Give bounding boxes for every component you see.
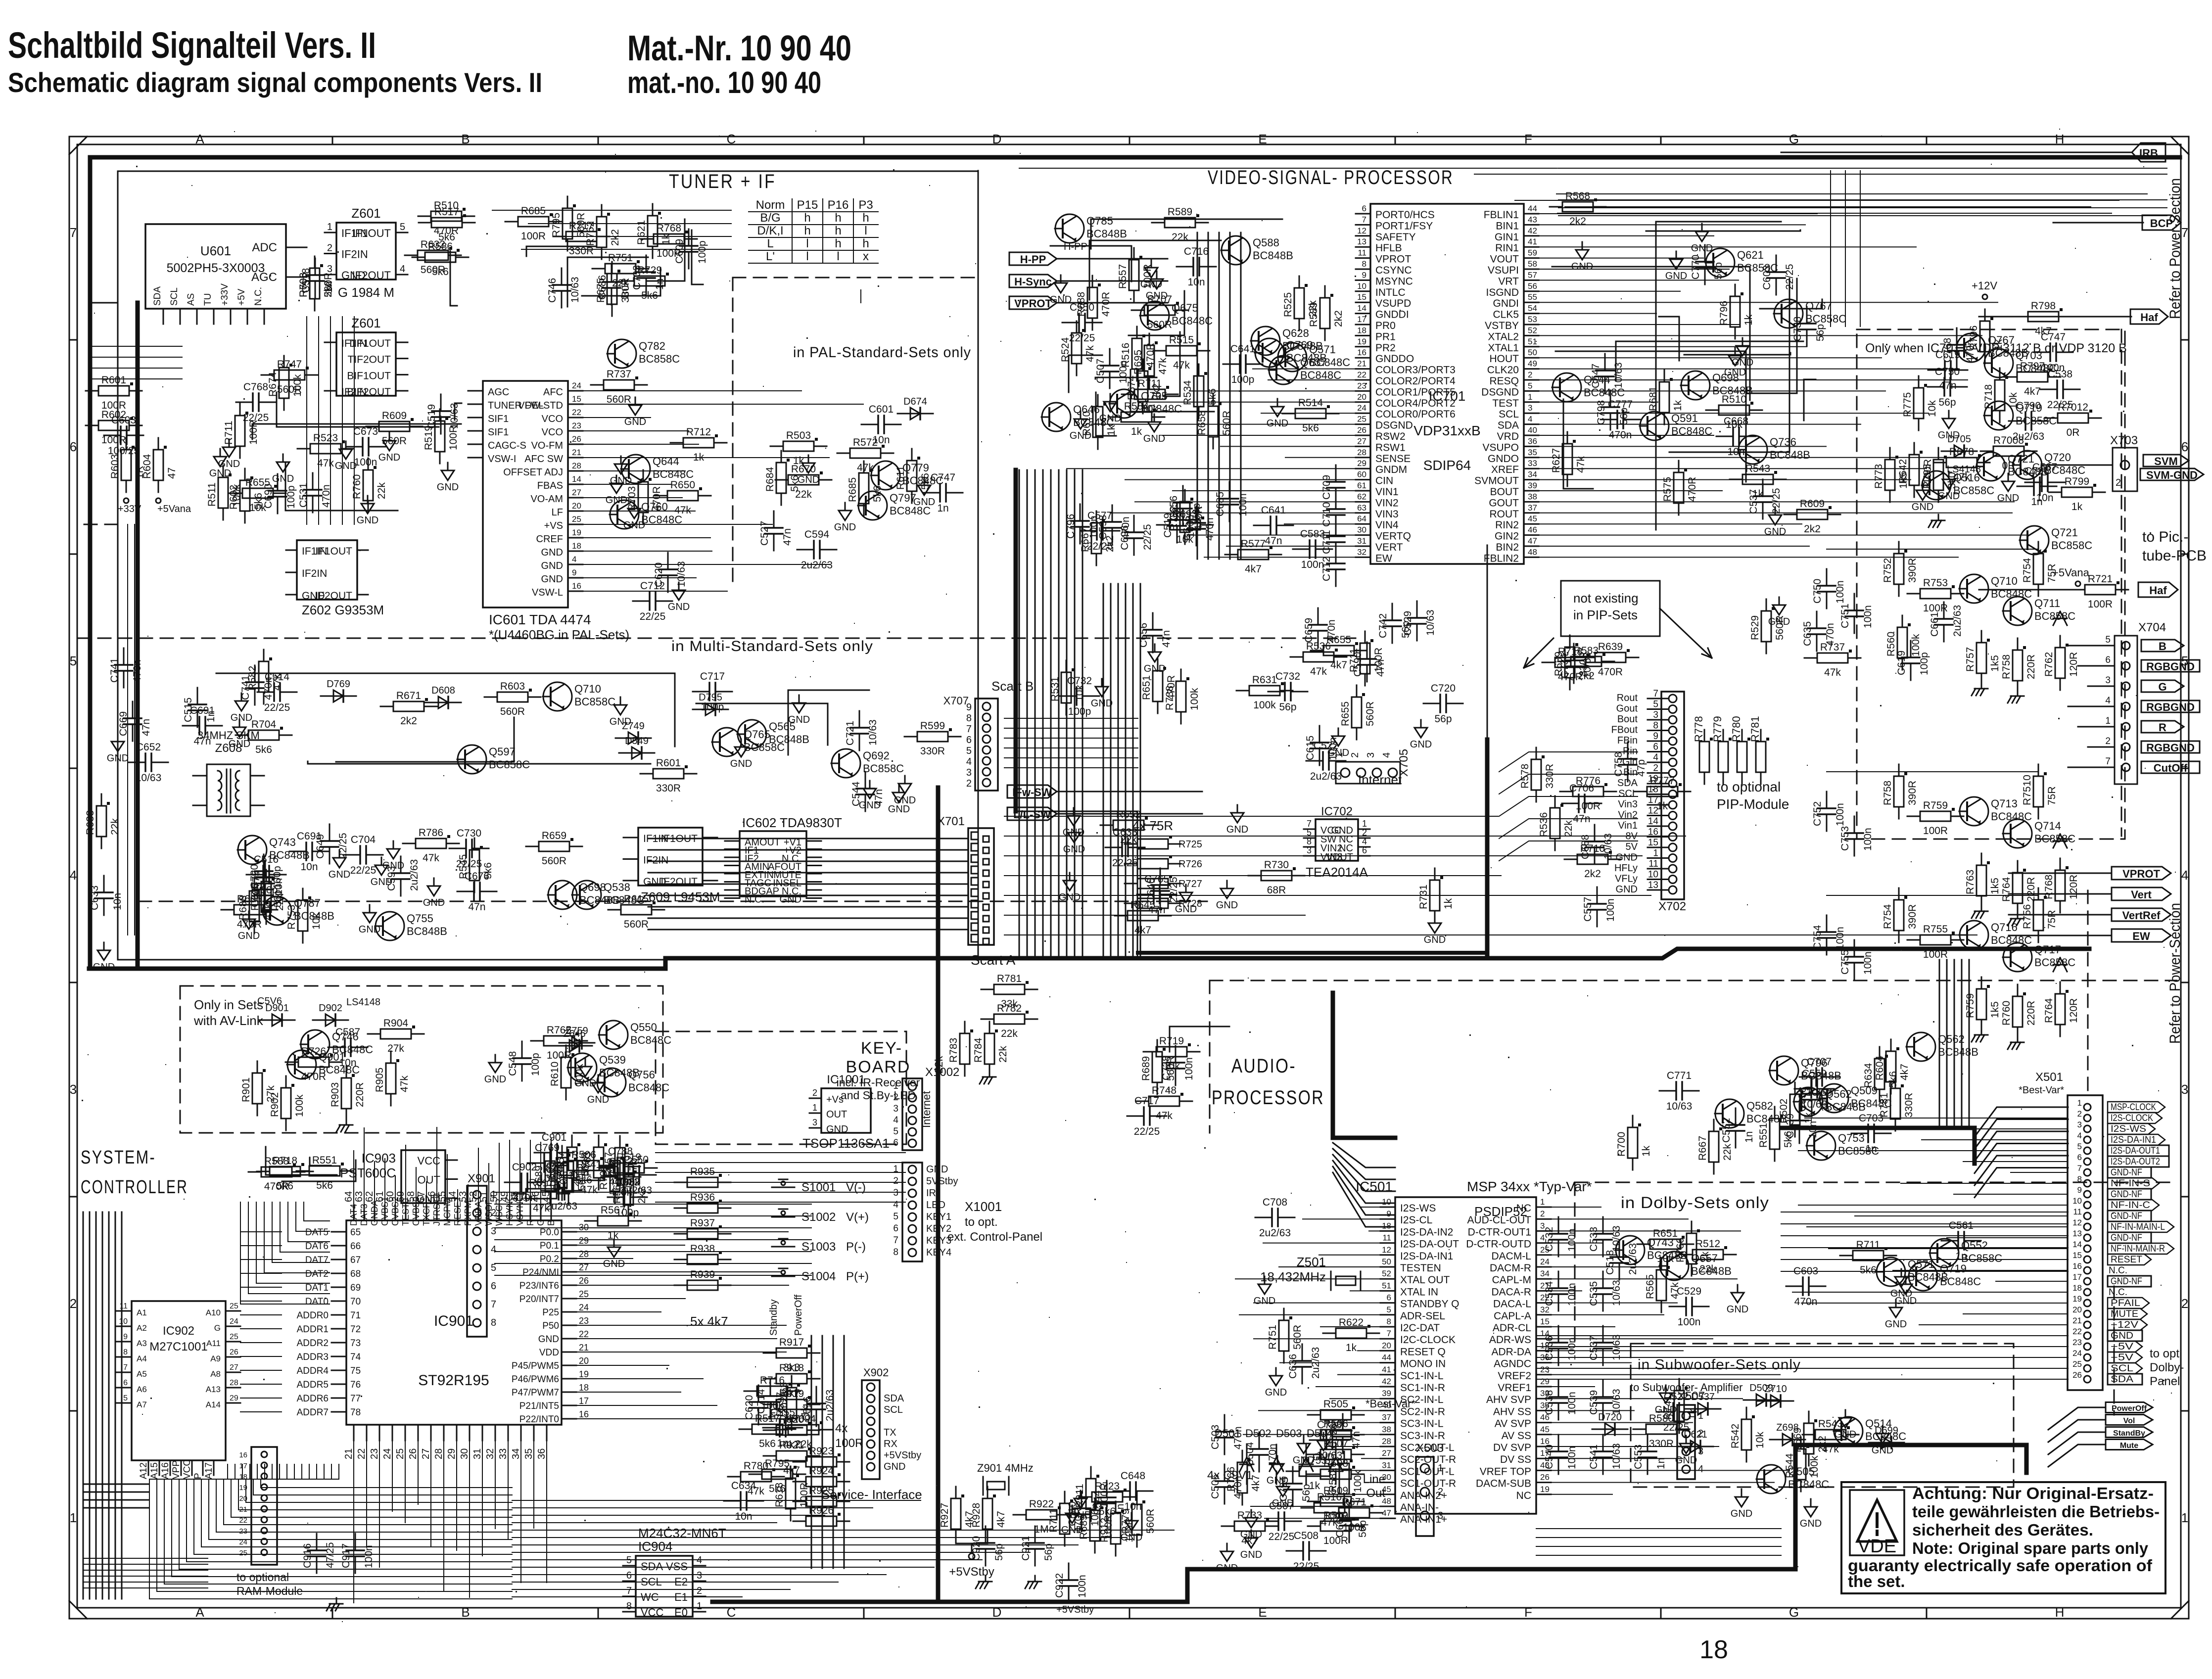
svg-text:GIN2: GIN2 xyxy=(1495,531,1519,542)
svg-text:GNDM: GNDM xyxy=(1375,464,1407,475)
svg-text:8: 8 xyxy=(2077,1174,2082,1184)
svg-text:RGBGND: RGBGND xyxy=(2146,742,2195,754)
svg-text:38: 38 xyxy=(1382,1425,1391,1434)
svg-text:PR2: PR2 xyxy=(1375,342,1396,354)
svg-text:20: 20 xyxy=(2072,1305,2082,1314)
svg-text:27: 27 xyxy=(1382,1448,1391,1458)
svg-text:R755: R755 xyxy=(1923,924,1948,935)
svg-text:C507: C507 xyxy=(1269,1500,1294,1512)
svg-text:C750: C750 xyxy=(1812,579,1823,604)
svg-text:R741: R741 xyxy=(1662,1395,1674,1420)
svg-text:20: 20 xyxy=(1357,392,1366,402)
svg-text:BC848B: BC848B xyxy=(1086,228,1127,240)
svg-text:10/63: 10/63 xyxy=(136,772,162,784)
svg-text:GND: GND xyxy=(603,1259,625,1269)
svg-text:*(U4460BG in PAL-Sets): *(U4460BG in PAL-Sets) xyxy=(489,627,629,642)
svg-text:in Subwoofer-Sets only: in Subwoofer-Sets only xyxy=(1638,1357,1801,1373)
svg-text:GND: GND xyxy=(1691,243,1713,254)
svg-text:22k: 22k xyxy=(1722,1144,1733,1161)
svg-text:B/G: B/G xyxy=(760,211,780,225)
svg-text:Norm: Norm xyxy=(756,198,785,212)
svg-text:BC848C: BC848C xyxy=(1788,1478,1829,1491)
svg-text:10: 10 xyxy=(1648,870,1658,880)
svg-text:R514: R514 xyxy=(1298,397,1323,409)
svg-text:47: 47 xyxy=(166,467,178,479)
svg-text:PR0: PR0 xyxy=(1375,320,1396,331)
svg-text:C615: C615 xyxy=(1305,736,1316,760)
svg-text:R795: R795 xyxy=(1922,464,1933,489)
svg-text:100n: 100n xyxy=(1862,828,1874,851)
svg-text:60: 60 xyxy=(1357,470,1366,479)
svg-text:P23/INT6: P23/INT6 xyxy=(519,1281,559,1291)
svg-text:22: 22 xyxy=(1357,370,1366,379)
svg-text:R721: R721 xyxy=(2088,573,2113,585)
svg-text:Note: Original spare parts onl: Note: Original spare parts only xyxy=(1912,1539,2149,1557)
svg-text:10: 10 xyxy=(1357,281,1366,291)
svg-text:R689: R689 xyxy=(1140,1056,1152,1081)
svg-text:X707: X707 xyxy=(943,695,969,707)
svg-text:F: F xyxy=(1524,1605,1532,1620)
svg-text:14: 14 xyxy=(1357,304,1366,313)
svg-text:2: 2 xyxy=(2105,736,2111,746)
svg-text:3: 3 xyxy=(697,1570,702,1581)
svg-text:10n: 10n xyxy=(872,434,890,446)
svg-text:55: 55 xyxy=(1528,292,1537,302)
svg-text:27k: 27k xyxy=(387,1043,404,1054)
svg-text:GND: GND xyxy=(1063,844,1085,855)
svg-text:V(+): V(+) xyxy=(846,1211,869,1224)
svg-text:Z749: Z749 xyxy=(622,721,645,732)
svg-text:GND: GND xyxy=(834,522,856,533)
svg-text:not existing: not existing xyxy=(1573,591,1639,606)
svg-text:I2S-DA-IN1: I2S-DA-IN1 xyxy=(1400,1251,1453,1262)
svg-text:SDA: SDA xyxy=(641,1560,663,1573)
svg-text:VertRef: VertRef xyxy=(2122,909,2161,922)
svg-text:27: 27 xyxy=(1357,436,1366,446)
svg-text:SCL: SCL xyxy=(1618,789,1638,799)
svg-text:2: 2 xyxy=(491,1208,496,1218)
svg-text:100R: 100R xyxy=(1099,1483,1110,1508)
svg-text:CONTROLLER: CONTROLLER xyxy=(81,1177,188,1198)
svg-text:1n: 1n xyxy=(2031,496,2042,508)
svg-text:1: 1 xyxy=(2181,1510,2188,1525)
svg-text:BIF2OUT: BIF2OUT xyxy=(347,386,391,398)
svg-text:IR: IR xyxy=(926,1188,936,1199)
svg-text:I2S-CL: I2S-CL xyxy=(1400,1214,1432,1226)
svg-text:XTAL OUT: XTAL OUT xyxy=(1400,1274,1450,1286)
svg-text:22k: 22k xyxy=(933,1056,945,1073)
svg-text:MSYNC: MSYNC xyxy=(1375,276,1413,287)
svg-text:SCL: SCL xyxy=(2111,1363,2133,1374)
svg-text:R658: R658 xyxy=(1196,411,1208,435)
svg-text:IF2IN: IF2IN xyxy=(643,855,668,866)
svg-text:M24C32-MN6T: M24C32-MN6T xyxy=(638,1526,726,1540)
svg-text:NF-IN-S: NF-IN-S xyxy=(2111,1178,2150,1189)
svg-text:L': L' xyxy=(766,250,775,263)
svg-text:R707: R707 xyxy=(1147,294,1172,305)
svg-text:4: 4 xyxy=(2077,1131,2082,1140)
svg-text:22: 22 xyxy=(2072,1327,2082,1336)
svg-text:47k: 47k xyxy=(1157,358,1169,374)
svg-text:100R: 100R xyxy=(1923,949,1948,960)
svg-text:R748: R748 xyxy=(1152,1085,1177,1096)
svg-text:C753: C753 xyxy=(1839,826,1851,851)
svg-text:GND: GND xyxy=(1327,747,1349,758)
svg-text:D769: D769 xyxy=(327,679,350,690)
svg-text:100k: 100k xyxy=(292,374,303,397)
svg-text:C771: C771 xyxy=(1667,1070,1692,1081)
svg-text:C747: C747 xyxy=(931,472,955,483)
svg-text:BC858C: BC858C xyxy=(1805,313,1846,325)
svg-text:5: 5 xyxy=(491,1262,496,1273)
svg-text:ADDR3: ADDR3 xyxy=(297,1352,329,1362)
svg-text:25: 25 xyxy=(579,1289,589,1299)
svg-text:13: 13 xyxy=(1648,880,1658,890)
svg-text:D705: D705 xyxy=(1947,434,1971,445)
svg-text:R674: R674 xyxy=(267,372,279,397)
svg-text:AGNDC: AGNDC xyxy=(1494,1358,1531,1370)
svg-text:22/25: 22/25 xyxy=(1087,541,1113,552)
svg-text:GND: GND xyxy=(437,482,459,493)
svg-text:R639: R639 xyxy=(1598,641,1623,653)
svg-text:R: R xyxy=(2159,721,2166,734)
svg-text:56: 56 xyxy=(1528,281,1537,291)
svg-text:R919: R919 xyxy=(779,1388,804,1399)
svg-text:ADDR7: ADDR7 xyxy=(297,1407,329,1418)
svg-text:IRB: IRB xyxy=(2139,147,2158,159)
svg-text:AV SVP: AV SVP xyxy=(1495,1418,1531,1430)
svg-text:R764: R764 xyxy=(2001,877,2012,902)
svg-text:U601: U601 xyxy=(200,243,231,258)
svg-text:H-PP: H-PP xyxy=(1064,241,1087,252)
svg-text:6: 6 xyxy=(491,1281,496,1292)
svg-text:TU: TU xyxy=(203,293,213,306)
svg-text:ST92R195: ST92R195 xyxy=(418,1372,489,1389)
svg-text:47k: 47k xyxy=(674,505,691,516)
svg-text:100k: 100k xyxy=(574,1064,585,1086)
svg-text:5k6: 5k6 xyxy=(1860,1264,1877,1276)
svg-text:5: 5 xyxy=(1387,1305,1391,1314)
svg-text:1k: 1k xyxy=(608,1230,619,1241)
svg-text:AGC: AGC xyxy=(488,387,509,398)
svg-text:GND: GND xyxy=(93,962,115,973)
svg-text:R708: R708 xyxy=(298,273,309,297)
svg-text:BC848C: BC848C xyxy=(1172,315,1213,327)
svg-text:75R: 75R xyxy=(2046,786,2058,805)
svg-text:120R: 120R xyxy=(2068,652,2079,677)
svg-text:VIDEO-SIGNAL- PROCESSOR: VIDEO-SIGNAL- PROCESSOR xyxy=(1208,167,1454,188)
svg-text:28: 28 xyxy=(230,1379,238,1387)
svg-text:R759: R759 xyxy=(1923,800,1948,811)
svg-text:100n: 100n xyxy=(1605,898,1616,922)
svg-text:TEST: TEST xyxy=(1492,398,1519,409)
svg-text:F: F xyxy=(1524,132,1532,146)
svg-text:470R: 470R xyxy=(1598,666,1623,678)
svg-text:1n: 1n xyxy=(1955,1251,1967,1262)
svg-text:1k5: 1k5 xyxy=(1989,1001,2001,1018)
svg-text:ext. Control-Panel: ext. Control-Panel xyxy=(947,1230,1042,1244)
svg-text:I2S-DA-IN2: I2S-DA-IN2 xyxy=(1400,1226,1453,1238)
svg-text:Q714: Q714 xyxy=(2034,820,2061,832)
svg-text:5k6: 5k6 xyxy=(789,475,800,492)
svg-text:Z601: Z601 xyxy=(351,206,380,221)
svg-text:C516: C516 xyxy=(254,854,279,865)
svg-text:5002PH5-3X0003: 5002PH5-3X0003 xyxy=(167,261,265,275)
svg-text:5: 5 xyxy=(1528,381,1532,390)
svg-text:NF-IN-C: NF-IN-C xyxy=(2111,1200,2150,1211)
svg-text:4k7: 4k7 xyxy=(1241,1535,1258,1546)
svg-text:VCO: VCO xyxy=(542,427,563,438)
svg-text:C755: C755 xyxy=(1839,950,1851,975)
svg-text:N.C.: N.C. xyxy=(253,287,264,306)
svg-text:C506: C506 xyxy=(1210,1474,1221,1499)
svg-text:9: 9 xyxy=(1653,731,1658,742)
svg-text:2k2: 2k2 xyxy=(400,715,417,727)
svg-text:1: 1 xyxy=(1528,392,1532,402)
svg-text:R517: R517 xyxy=(434,206,459,218)
svg-text:73: 73 xyxy=(350,1338,361,1349)
svg-text:20: 20 xyxy=(239,1494,247,1503)
svg-text:AS: AS xyxy=(186,293,196,306)
svg-text:R685: R685 xyxy=(521,205,546,217)
svg-text:Q588: Q588 xyxy=(1253,236,1279,249)
svg-text:29: 29 xyxy=(579,1236,589,1246)
svg-text:L: L xyxy=(767,237,773,250)
svg-text:1k: 1k xyxy=(1346,1342,1357,1353)
svg-text:10k: 10k xyxy=(1074,685,1085,701)
svg-text:GNDDO: GNDDO xyxy=(1375,353,1414,365)
svg-text:in PAL-Standard-Sets only: in PAL-Standard-Sets only xyxy=(793,344,971,361)
svg-text:COLOR1/PORT5: COLOR1/PORT5 xyxy=(1375,386,1456,398)
svg-text:4: 4 xyxy=(1698,1464,1703,1475)
svg-text:7: 7 xyxy=(893,1235,898,1246)
svg-text:47n: 47n xyxy=(1573,813,1590,825)
svg-text:Q769: Q769 xyxy=(1286,339,1313,351)
svg-text:R503: R503 xyxy=(786,430,811,441)
svg-text:Vin1: Vin1 xyxy=(1618,820,1638,831)
svg-text:R651: R651 xyxy=(1653,1228,1678,1239)
svg-text:R797: R797 xyxy=(2020,361,2045,372)
svg-text:37: 37 xyxy=(1528,503,1537,513)
svg-text:22/25: 22/25 xyxy=(1293,1561,1319,1572)
svg-text:D-CTR-OUT1: D-CTR-OUT1 xyxy=(1468,1226,1531,1238)
svg-text:IF2OUT: IF2OUT xyxy=(660,876,698,887)
svg-text:Q644: Q644 xyxy=(653,455,679,467)
svg-text:R565: R565 xyxy=(1645,1274,1656,1299)
svg-text:2k2: 2k2 xyxy=(1804,523,1821,535)
svg-text:R727: R727 xyxy=(1178,879,1202,889)
svg-text:SDA: SDA xyxy=(2111,1374,2133,1385)
svg-text:2u2/63: 2u2/63 xyxy=(1259,1227,1291,1239)
svg-text:47n: 47n xyxy=(782,528,793,546)
svg-text:SC2-OUT-R: SC2-OUT-R xyxy=(1400,1454,1456,1465)
svg-text:C503: C503 xyxy=(1210,1425,1221,1449)
svg-text:470n: 470n xyxy=(1609,429,1632,441)
svg-text:27: 27 xyxy=(230,1363,238,1372)
svg-text:R601: R601 xyxy=(656,757,681,769)
svg-text:4: 4 xyxy=(1381,752,1392,758)
svg-text:VCC: VCC xyxy=(182,1459,192,1479)
svg-text:+VS: +VS xyxy=(544,520,563,531)
svg-text:Gin: Gin xyxy=(1622,756,1638,767)
svg-text:C540: C540 xyxy=(1544,1445,1555,1469)
svg-text:C796: C796 xyxy=(1065,514,1077,539)
svg-text:X1001: X1001 xyxy=(965,1199,1002,1214)
svg-text:with AV-Link: with AV-Link xyxy=(193,1013,264,1028)
svg-text:E: E xyxy=(1258,132,1267,146)
svg-text:GND: GND xyxy=(798,474,819,485)
svg-text:VFW-STD: VFW-STD xyxy=(518,400,563,411)
svg-text:BC858C: BC858C xyxy=(744,741,785,753)
svg-text:G: G xyxy=(1789,1605,1799,1620)
svg-text:BC858C: BC858C xyxy=(863,762,904,775)
svg-text:R603: R603 xyxy=(109,454,121,479)
svg-text:20: 20 xyxy=(1382,1341,1391,1350)
svg-text:56p: 56p xyxy=(1938,397,1956,408)
svg-text:31: 31 xyxy=(472,1448,483,1459)
svg-text:C561: C561 xyxy=(1949,1220,1974,1231)
svg-text:X901: X901 xyxy=(468,1172,495,1185)
svg-text:CLK20: CLK20 xyxy=(1487,365,1519,376)
svg-text:1: 1 xyxy=(1438,1463,1443,1474)
svg-text:C536: C536 xyxy=(1544,1336,1555,1360)
svg-text:GND-NF: GND-NF xyxy=(2111,1167,2142,1178)
svg-text:IF1OUT: IF1OUT xyxy=(352,227,391,239)
svg-text:560R: 560R xyxy=(1365,701,1376,726)
svg-text:h: h xyxy=(835,211,841,225)
svg-text:24: 24 xyxy=(579,1303,589,1312)
svg-text:RGBGND: RGBGND xyxy=(2146,660,2195,673)
svg-text:R781: R781 xyxy=(1749,716,1761,742)
svg-text:40: 40 xyxy=(1528,425,1537,435)
svg-text:A2: A2 xyxy=(137,1323,147,1333)
svg-text:B: B xyxy=(2159,640,2166,653)
svg-text:GND-NF: GND-NF xyxy=(2111,1189,2142,1200)
svg-text:R922: R922 xyxy=(1029,1498,1054,1510)
svg-text:ADDR6: ADDR6 xyxy=(297,1394,329,1404)
svg-text:SC3-IN-L: SC3-IN-L xyxy=(1400,1418,1444,1430)
svg-text:BC848C: BC848C xyxy=(1671,425,1712,437)
svg-text:6: 6 xyxy=(1362,845,1367,855)
svg-text:Only in Sets: Only in Sets xyxy=(194,997,263,1012)
svg-text:1k: 1k xyxy=(693,452,705,463)
svg-text:100k: 100k xyxy=(294,1094,305,1117)
svg-text:35: 35 xyxy=(523,1448,534,1459)
svg-text:47k: 47k xyxy=(1173,360,1190,371)
svg-text:47n: 47n xyxy=(1375,659,1386,677)
svg-text:+12V: +12V xyxy=(2111,1320,2138,1330)
svg-text:GND: GND xyxy=(1216,1563,1238,1574)
svg-text:4k7: 4k7 xyxy=(1899,1064,1910,1080)
svg-text:31: 31 xyxy=(1357,536,1366,546)
svg-text:24: 24 xyxy=(572,381,581,390)
svg-text:SVMOUT: SVMOUT xyxy=(1474,475,1519,487)
svg-text:C641: C641 xyxy=(1261,505,1286,516)
svg-text:GND: GND xyxy=(926,1164,948,1175)
svg-text:Q628: Q628 xyxy=(1282,327,1309,339)
svg-text:8: 8 xyxy=(893,1247,898,1258)
svg-text:Q713: Q713 xyxy=(1991,797,2018,810)
svg-text:CutOff: CutOff xyxy=(2154,762,2188,774)
svg-text:VRT: VRT xyxy=(1498,276,1519,287)
svg-text:390R: 390R xyxy=(1907,558,1918,583)
svg-text:7: 7 xyxy=(70,225,77,240)
svg-text:GND-NF: GND-NF xyxy=(2111,1276,2142,1287)
svg-text:100n: 100n xyxy=(1835,803,1846,826)
svg-text:5: 5 xyxy=(966,746,972,756)
svg-text:16: 16 xyxy=(579,1409,589,1419)
svg-text:GNDI: GNDI xyxy=(1493,298,1519,309)
svg-text:R603: R603 xyxy=(500,681,525,692)
svg-text:P20/INT7: P20/INT7 xyxy=(519,1294,559,1305)
svg-text:SDA: SDA xyxy=(1498,420,1519,431)
svg-text:470R: 470R xyxy=(1145,343,1156,368)
svg-text:HFLB: HFLB xyxy=(1375,242,1402,254)
svg-text:Vin2: Vin2 xyxy=(1618,810,1638,821)
svg-text:R759: R759 xyxy=(1965,993,1976,1018)
svg-text:C641: C641 xyxy=(1230,343,1255,355)
svg-text:C730: C730 xyxy=(457,828,481,839)
svg-text:57: 57 xyxy=(1528,270,1537,280)
svg-text:A17: A17 xyxy=(204,1462,214,1479)
svg-text:C902: C902 xyxy=(512,1162,537,1173)
svg-text:GND: GND xyxy=(378,452,400,463)
svg-text:R711: R711 xyxy=(1048,1508,1059,1533)
svg-text:8: 8 xyxy=(1362,259,1366,269)
svg-text:VIN1: VIN1 xyxy=(1375,486,1399,498)
svg-text:R901: R901 xyxy=(240,1077,252,1102)
svg-text:10/63: 10/63 xyxy=(676,561,687,587)
svg-text:GND: GND xyxy=(1267,1475,1288,1486)
svg-text:GND: GND xyxy=(107,753,129,764)
svg-text:56p: 56p xyxy=(1713,262,1724,280)
svg-text:4: 4 xyxy=(893,1115,898,1125)
svg-text:43: 43 xyxy=(1528,215,1537,224)
svg-text:22: 22 xyxy=(239,1516,247,1525)
svg-text:29: 29 xyxy=(446,1448,457,1459)
svg-text:BC848C: BC848C xyxy=(2044,464,2085,476)
svg-text:6: 6 xyxy=(2105,655,2111,665)
svg-text:R904: R904 xyxy=(383,1018,409,1029)
svg-text:VO-FM: VO-FM xyxy=(531,440,563,451)
svg-text:A7: A7 xyxy=(137,1400,147,1409)
svg-text:38: 38 xyxy=(1528,492,1537,501)
svg-text:47n: 47n xyxy=(1939,380,1956,391)
svg-text:R795: R795 xyxy=(551,213,562,237)
svg-text:13: 13 xyxy=(2072,1229,2082,1238)
svg-text:IC904: IC904 xyxy=(638,1539,672,1554)
svg-text:18: 18 xyxy=(1699,1635,1728,1664)
svg-text:5k6: 5k6 xyxy=(920,473,931,490)
svg-text:Q698: Q698 xyxy=(579,881,606,893)
svg-text:PFAIL: PFAIL xyxy=(2111,1298,2140,1308)
svg-text:1k5: 1k5 xyxy=(1898,472,1909,489)
svg-text:BC848B: BC848B xyxy=(1286,352,1327,364)
svg-text:to opt.: to opt. xyxy=(2150,1347,2183,1360)
svg-text:Vert: Vert xyxy=(2131,888,2152,901)
svg-text:BIN2: BIN2 xyxy=(1496,542,1519,553)
svg-text:A10: A10 xyxy=(206,1308,221,1317)
svg-text:25: 25 xyxy=(1357,415,1366,424)
svg-text:19: 19 xyxy=(1648,774,1658,784)
svg-text:GND: GND xyxy=(1616,852,1638,863)
svg-text:8: 8 xyxy=(123,1348,128,1356)
svg-text:R671: R671 xyxy=(396,690,421,701)
svg-text:4: 4 xyxy=(400,264,405,275)
svg-text:77: 77 xyxy=(350,1394,361,1404)
svg-text:2k2: 2k2 xyxy=(1333,310,1344,327)
svg-text:6: 6 xyxy=(626,1570,632,1581)
